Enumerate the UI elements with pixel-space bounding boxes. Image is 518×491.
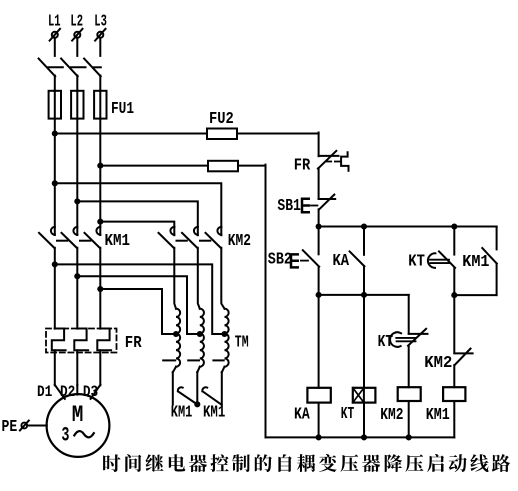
label KA (contact)	[333, 252, 350, 271]
label FU2	[209, 110, 234, 129]
wire	[54, 119, 56, 235]
coil KM1	[443, 387, 465, 401]
fuse FU1 pole 3	[94, 91, 106, 119]
wire	[55, 183, 222, 227]
wire	[76, 385, 78, 395]
title text	[103, 454, 510, 472]
wire	[453, 268, 455, 353]
wire	[76, 350, 78, 385]
label KM1 (star 2)	[203, 404, 225, 423]
node KT branch	[451, 223, 457, 229]
fuse FU2 upper	[207, 129, 237, 140]
wire	[54, 76, 56, 92]
wire	[453, 365, 455, 387]
wire	[55, 264, 225, 334]
wire	[173, 367, 176, 373]
wire	[77, 201, 198, 227]
svg-text:3: 3	[61, 425, 69, 448]
label SB2	[268, 251, 292, 270]
svg-text:SB2: SB2	[268, 251, 292, 270]
node L2-KM2	[74, 198, 80, 204]
terminal PE	[2, 418, 47, 437]
wire	[408, 346, 410, 388]
contactor KM1 star contact 2	[202, 387, 221, 404]
svg-text:TM: TM	[235, 334, 249, 353]
svg-text:KA: KA	[294, 406, 310, 425]
wire	[453, 401, 455, 437]
svg-text:KM2: KM2	[380, 406, 403, 425]
contactor KM1 main contact pole 3	[85, 227, 101, 248]
wire	[318, 168, 320, 199]
wire	[363, 403, 365, 438]
contactor KM2 main contact pole 3	[206, 227, 222, 248]
contactor KM2 main contact pole 2	[182, 227, 198, 248]
node KA branch	[361, 223, 367, 229]
wire	[54, 248, 56, 329]
svg-text:L1: L1	[48, 13, 61, 32]
wire	[221, 372, 223, 405]
label D3	[83, 383, 98, 401]
KM2 main linkage	[177, 240, 211, 242]
wire	[54, 350, 56, 385]
terminal L2	[70, 13, 83, 41]
wire	[77, 276, 200, 334]
label KM1 (aux)	[462, 253, 489, 272]
wire	[197, 367, 200, 373]
wire	[100, 165, 208, 167]
motor M	[47, 394, 110, 457]
node KT-KM1 junction	[451, 292, 457, 298]
contactor KM2 interlock contact	[454, 349, 472, 366]
node KA out	[361, 292, 367, 298]
node SB1 out	[316, 223, 322, 229]
svg-text:KT: KT	[408, 253, 425, 272]
wire	[99, 38, 101, 56]
wire	[100, 222, 174, 227]
svg-text:SB1: SB1	[277, 197, 301, 216]
wire	[76, 119, 78, 235]
label TM	[235, 334, 249, 353]
wire	[172, 372, 174, 405]
wire	[99, 76, 101, 92]
wire	[318, 209, 320, 226]
switch QS linkage	[48, 66, 101, 68]
svg-text:FU1: FU1	[111, 100, 134, 119]
svg-text:KM2: KM2	[424, 354, 452, 373]
label FU1	[111, 100, 134, 119]
svg-text:KA: KA	[333, 252, 350, 271]
terminal L1	[48, 13, 61, 41]
fuse FU1 pole 2	[71, 91, 83, 119]
label D2	[60, 383, 75, 401]
svg-text:D1: D1	[37, 383, 52, 401]
label KA (coil)	[294, 406, 310, 425]
wire	[453, 227, 455, 255]
wire	[221, 248, 224, 309]
thermal relay FR heater 1	[52, 329, 66, 351]
label SB1	[277, 197, 301, 216]
relay contact KA	[350, 251, 365, 266]
node L1-FU2a	[52, 130, 58, 136]
svg-text:L2: L2	[70, 13, 83, 32]
wire	[55, 133, 207, 135]
switch QS pole 1	[39, 59, 56, 77]
coil KA	[307, 388, 330, 403]
node star junction	[194, 401, 200, 407]
thermal relay FR box	[46, 329, 117, 353]
pushbutton SB2	[291, 250, 319, 267]
wire	[91, 385, 101, 399]
thermal relay FR heater 2	[74, 329, 88, 351]
svg-text:KM1: KM1	[105, 232, 131, 251]
coil KM2	[398, 387, 421, 401]
svg-text:KT: KT	[341, 405, 354, 424]
node KM2 coil out	[406, 434, 412, 440]
switch QS pole 2	[61, 59, 78, 77]
svg-text:FR: FR	[294, 157, 311, 176]
KM1 main linkage	[57, 240, 90, 242]
svg-text:KM1: KM1	[171, 404, 193, 423]
svg-text:KM2: KM2	[228, 232, 251, 251]
wire	[76, 76, 78, 92]
wire	[319, 295, 409, 334]
node M1-tap	[52, 261, 58, 267]
autotransformer TM winding 2	[188, 309, 204, 367]
wire	[55, 385, 65, 399]
svg-text:KT: KT	[378, 333, 394, 352]
wire	[318, 403, 320, 438]
node KA coil out	[316, 434, 322, 440]
wire	[266, 436, 455, 438]
contactor KM1 aux contact	[482, 248, 497, 264]
fuse FU1 pole 1	[49, 91, 61, 119]
label KM1 (coil)	[426, 406, 450, 425]
label FR (contact)	[294, 157, 311, 176]
contactor KM2 main contact pole 1	[159, 227, 175, 248]
autotransformer TM winding 3	[213, 309, 228, 367]
wire	[363, 227, 365, 255]
wire	[76, 248, 78, 329]
wire	[454, 264, 496, 296]
node SB2 out	[316, 292, 322, 298]
wire	[198, 248, 200, 309]
pushbutton SB1	[302, 195, 335, 213]
label D1	[37, 383, 52, 401]
contactor KM1 star contact 1	[178, 387, 197, 404]
wire	[363, 295, 365, 388]
label KT (coil)	[341, 405, 354, 424]
timer contact KT (delayed close)	[428, 251, 455, 268]
svg-text:FR: FR	[125, 334, 142, 353]
node KT coil out	[361, 434, 367, 440]
node L1-KM2	[52, 180, 58, 186]
contactor KM1 main contact pole 1	[39, 227, 55, 248]
wire	[76, 38, 78, 56]
wire	[237, 133, 319, 157]
wire	[319, 226, 497, 228]
wire	[54, 38, 56, 56]
contactor KM1 main contact pole 2	[62, 227, 78, 248]
coil KT	[353, 388, 376, 403]
node L3-KM2	[97, 219, 103, 225]
svg-text:KM1: KM1	[426, 406, 450, 425]
label KT (NO contact)	[408, 253, 425, 272]
thermal relay FR contact	[318, 151, 349, 171]
svg-text:PE: PE	[2, 418, 18, 437]
label KM1 (main)	[105, 232, 131, 251]
terminal L3	[94, 13, 107, 41]
label KT (NC contact)	[378, 333, 394, 352]
svg-text:KM1: KM1	[203, 404, 225, 423]
wire	[99, 350, 101, 385]
wire	[318, 295, 320, 388]
wire	[99, 119, 101, 235]
wire	[408, 401, 410, 437]
timer contact KT (delayed open)	[390, 329, 427, 347]
wire	[238, 165, 266, 438]
wire	[174, 248, 176, 309]
autotransformer TM winding 1	[163, 309, 180, 367]
wire	[496, 227, 497, 250]
switch QS pole 3	[84, 59, 101, 77]
label FR (heaters)	[125, 334, 142, 353]
wire	[99, 248, 101, 329]
label KM1 (star 1)	[171, 404, 193, 423]
wire	[363, 266, 365, 295]
wire	[318, 267, 320, 295]
node L3-FU2b	[97, 163, 103, 169]
label KM2 (coil)	[380, 406, 403, 425]
node M3-tap	[97, 286, 103, 292]
label KM2 (interlock)	[424, 354, 452, 373]
node M2-tap	[74, 273, 80, 279]
wire	[196, 372, 198, 404]
fuse FU2 lower	[208, 161, 238, 172]
wire	[318, 227, 320, 255]
svg-text:KM1: KM1	[462, 253, 489, 272]
thermal relay FR heater 3	[97, 329, 111, 351]
svg-text:M: M	[72, 402, 84, 428]
wire	[222, 367, 225, 373]
wire	[100, 289, 176, 334]
svg-text:FU2: FU2	[209, 110, 234, 129]
label KM2 (main)	[228, 232, 251, 251]
